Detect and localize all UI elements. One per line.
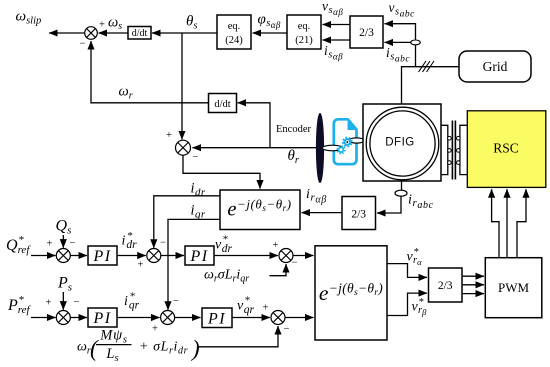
wire DFIG bottom to node — [401, 180, 403, 190]
summing junction S1 — [85, 27, 98, 40]
block d/dt D1 — [128, 27, 151, 40]
wire theta_s minus theta_r into e-box1 — [183, 155, 260, 188]
wire 2/3 to PWM a — [462, 275, 484, 277]
shaft left ellipse — [322, 145, 343, 151]
block PI1 — [88, 246, 117, 265]
svg-text:eq.: eq. — [228, 21, 241, 32]
wire i_s_alphabeta — [323, 39, 351, 41]
summing junction J5 — [279, 249, 293, 263]
svg-text:PI: PI — [207, 310, 226, 327]
wire v_sabc — [385, 24, 416, 67]
svg-text:+: + — [263, 303, 269, 314]
wire JQ to PI1 — [70, 255, 87, 257]
summing junction J3 — [147, 249, 161, 263]
svg-text:Encoder: Encoder — [276, 124, 311, 135]
wire phi_s from eq21 to eq24 — [253, 32, 288, 34]
wire Pref input — [31, 317, 56, 319]
svg-text:PI: PI — [92, 310, 111, 327]
svg-text:d/dt: d/dt — [214, 99, 230, 110]
wire Qref input — [31, 255, 56, 257]
wire i_dr feedback — [154, 196, 220, 248]
encoder icon gear small — [336, 145, 345, 154]
svg-text:Grid: Grid — [483, 59, 508, 74]
block eq21 — [287, 15, 321, 49]
wire theta_r from encoder disc to S2 — [193, 147, 317, 149]
svg-text:+: + — [47, 239, 53, 250]
svg-text:eq.: eq. — [298, 21, 311, 32]
wire i_rabc into 2/3 rotor — [377, 196, 401, 213]
wire i_sabc — [385, 41, 416, 43]
label omega_r fraction feedforward — [77, 328, 200, 365]
block 2/3 pwm — [429, 268, 463, 302]
encoder icon folded corner — [348, 120, 356, 129]
block PI3 — [88, 308, 117, 327]
wire J3 to PI2 — [161, 255, 184, 257]
wire P_s down arrow — [62, 292, 64, 310]
wire J5 to e-box2 — [293, 255, 314, 257]
svg-text:−: − — [173, 296, 179, 307]
svg-text:−: − — [292, 258, 298, 269]
block RSC — [467, 111, 546, 188]
block d/dt D2 — [209, 94, 237, 113]
svg-text:−: − — [193, 152, 199, 163]
node i_rabc ellipse — [395, 190, 407, 196]
svg-text:(24): (24) — [225, 35, 243, 46]
block eq24 — [217, 15, 251, 49]
wire J6 to e-box2 — [285, 317, 314, 319]
wire PWM to RSC right — [517, 189, 526, 258]
wire omega_slip output arrow — [49, 32, 85, 34]
wire omega_r from d/dt2 to S1 — [91, 41, 209, 103]
wire theta_s branch down to S2 — [181, 33, 183, 139]
rotor winding left — [441, 125, 451, 174]
wire into d/dt2 from theta_r branch — [238, 103, 271, 148]
svg-text:−: − — [80, 39, 86, 50]
3-phase slashes — [419, 61, 435, 72]
svg-text:(: ( — [90, 336, 99, 361]
wire PI2 to J5 — [214, 255, 278, 257]
svg-text:+: + — [46, 298, 52, 309]
encoder icon gear big — [342, 137, 353, 148]
wire i_qr feedback — [168, 219, 220, 309]
block e-box1 rotation — [220, 190, 300, 230]
block 2/3 stator — [350, 16, 383, 48]
wire 2/3 to PWM c — [462, 293, 484, 295]
block DFIG — [363, 104, 441, 181]
node tap ellipse on stator wire — [411, 40, 421, 45]
wire grid to DFIG — [402, 67, 460, 108]
wire i_r_alphabeta into e-box1 — [302, 212, 343, 214]
rotor winding right — [457, 125, 468, 174]
svg-text:+: + — [152, 324, 158, 335]
transformer core bars — [452, 121, 455, 180]
svg-text:2/3: 2/3 — [438, 280, 453, 292]
wire PI1 to J3 — [117, 255, 146, 257]
wire omega_s from d/dt1 to S1 — [99, 32, 129, 34]
svg-text:RSC: RSC — [493, 141, 519, 156]
block 2/3 rotor — [342, 197, 376, 230]
wire feedforward into J6 — [199, 326, 279, 347]
wire PI4 to J6 — [232, 317, 270, 319]
block PWM — [485, 258, 542, 318]
svg-text:−: − — [284, 324, 290, 335]
wire feedforward into J5 — [270, 264, 287, 276]
svg-text:d/dt: d/dt — [132, 28, 148, 39]
block PI4 — [202, 308, 232, 328]
wire 2/3 to PWM b — [462, 284, 484, 286]
encoder disc — [316, 114, 323, 183]
summing junction J6 — [271, 311, 285, 325]
wire PI3 to J4 — [117, 317, 160, 319]
svg-text:2/3: 2/3 — [351, 209, 366, 221]
svg-text:PWM: PWM — [498, 280, 530, 295]
svg-text:+: + — [273, 240, 279, 251]
svg-text:+: + — [99, 20, 105, 31]
summing junction JP — [56, 311, 70, 325]
summing junction J4 — [161, 311, 175, 325]
wire theta_s from eq24 to d/dt1 — [152, 32, 217, 34]
shaft right ellipse — [348, 138, 364, 143]
svg-text:DFIG: DFIG — [385, 137, 414, 149]
block PI2 — [185, 246, 214, 265]
wire v*_r_beta to 2/3 — [387, 293, 427, 315]
svg-text:PI: PI — [92, 248, 111, 265]
svg-text:+: + — [138, 260, 144, 271]
svg-text:−: − — [74, 297, 80, 308]
svg-text:): ) — [190, 336, 200, 361]
encoder icon file body — [334, 119, 357, 164]
summing junction JQ — [56, 249, 70, 263]
wire v_s_alphabeta — [323, 24, 351, 26]
svg-text:PI: PI — [189, 248, 208, 265]
svg-text:−: − — [70, 238, 76, 249]
summing junction S2 — [176, 140, 191, 155]
wire JP to PI3 — [70, 317, 87, 319]
svg-text:+: + — [166, 130, 172, 141]
block Grid — [459, 51, 531, 82]
wire Q_s down arrow — [62, 235, 64, 248]
wire v*_r_alpha to 2/3 — [387, 264, 427, 278]
svg-text:−: − — [160, 238, 166, 249]
wire J4 to PI4 — [175, 317, 201, 319]
wire PWM to RSC left — [492, 189, 499, 258]
svg-text:(21): (21) — [295, 35, 313, 46]
block e-box2 rotation — [315, 246, 387, 340]
wire PWM to RSC middle — [506, 189, 508, 258]
svg-text:2/3: 2/3 — [359, 27, 374, 39]
